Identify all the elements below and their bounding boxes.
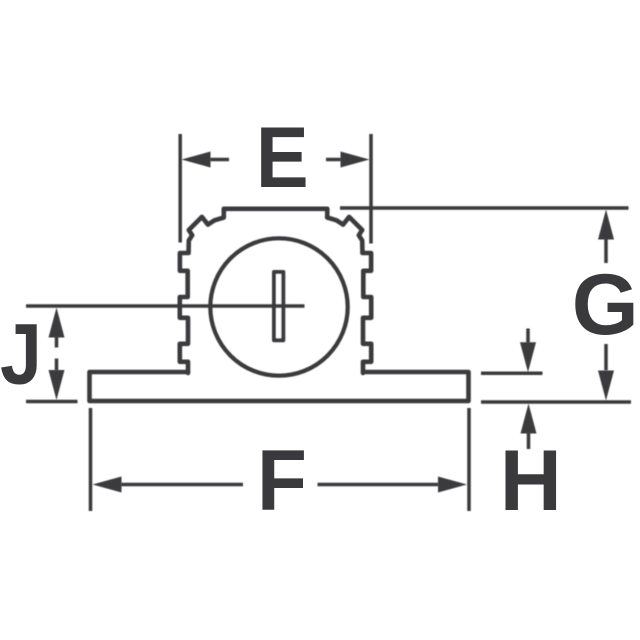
E extension line left bbox=[178, 134, 182, 243]
svg-text:F: F bbox=[257, 432, 307, 528]
F arrowhead right bbox=[438, 477, 467, 493]
F extension line right bbox=[467, 408, 471, 511]
H arrowhead up bbox=[521, 404, 537, 434]
J arrowhead up bbox=[49, 308, 65, 338]
J dim arrow tails bbox=[55, 337, 59, 371]
rotor circle bbox=[210, 238, 347, 375]
E dim arrow tails bbox=[210, 158, 341, 162]
J arrowhead down bbox=[49, 370, 65, 400]
G arrowhead down bbox=[598, 371, 614, 401]
E arrowhead left bbox=[182, 152, 211, 168]
F arrowhead left bbox=[93, 477, 122, 493]
svg-text:J: J bbox=[0, 307, 42, 403]
base plate bbox=[90, 372, 469, 401]
svg-text:G: G bbox=[572, 257, 639, 353]
F dim arrow tails bbox=[121, 483, 439, 487]
svg-text:E: E bbox=[256, 109, 309, 206]
G arrowhead up bbox=[598, 210, 614, 240]
H top reference line bbox=[481, 371, 543, 375]
E extension line right bbox=[369, 134, 373, 244]
G bottom reference line bbox=[481, 400, 631, 404]
F extension line left bbox=[89, 408, 93, 511]
screwdriver slot bbox=[274, 272, 283, 340]
center line bbox=[26, 304, 305, 308]
J bottom reference tick bbox=[26, 400, 78, 404]
svg-text:H: H bbox=[500, 433, 562, 529]
H arrowhead down bbox=[520, 342, 536, 372]
E arrowhead right bbox=[341, 152, 370, 168]
trimmer body outline bbox=[180, 209, 371, 373]
H dim arrow tails bbox=[526, 329, 530, 450]
G dim arrow tails bbox=[604, 239, 608, 371]
G extension line top bbox=[340, 206, 629, 210]
